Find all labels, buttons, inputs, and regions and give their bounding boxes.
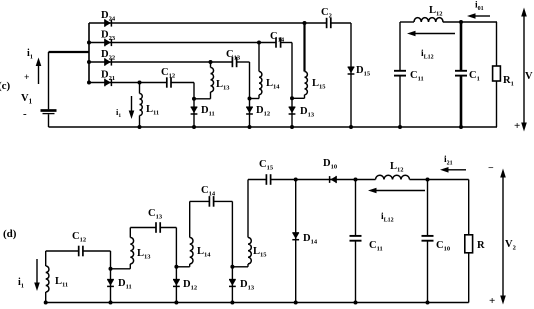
node L13 bottom joint: [109, 267, 113, 271]
svg-text:L13: L13: [216, 79, 230, 92]
svg-text:i1: i1: [27, 48, 33, 61]
inductor L15: [232, 180, 251, 267]
svg-text:C11: C11: [410, 70, 424, 83]
node L14 bottom joint: [248, 97, 252, 101]
capacitor C15: [266, 174, 270, 185]
svg-text:D12: D12: [256, 105, 270, 118]
wire battery to bus (thick feed): [49, 51, 90, 53]
svg-text:i1: i1: [116, 107, 121, 119]
inductor L11: [140, 83, 143, 128]
node bus-branch2: [87, 41, 91, 45]
node bus-branch3: [87, 60, 91, 64]
rail nodes: [138, 125, 464, 129]
diode D12: [246, 107, 253, 114]
svg-text:D22: D22: [101, 49, 115, 62]
voltage V2 arrow: [500, 169, 506, 305]
rail nodes: [44, 301, 430, 305]
svg-text:L14: L14: [197, 246, 211, 259]
diode D12: [173, 280, 180, 287]
node C11 tap: [354, 178, 358, 182]
svg-text:L12: L12: [429, 5, 443, 18]
wire C14 down to rail: [291, 43, 293, 128]
svg-text:V1: V1: [21, 93, 33, 106]
wire C12 down to rail: [110, 251, 112, 303]
svg-text:D11: D11: [118, 278, 132, 291]
svg-text:iL12: iL12: [421, 49, 434, 61]
diode D13: [289, 107, 296, 114]
wire C13 down to rail: [249, 62, 251, 127]
svg-text:C12: C12: [72, 231, 86, 244]
capacitor C14: [209, 196, 213, 207]
inductor L11: [46, 251, 49, 303]
svg-text:D14: D14: [303, 233, 318, 246]
node bus-branch4: [87, 81, 91, 85]
svg-text:C15: C15: [259, 159, 274, 172]
node L15 bottom joint: [290, 96, 294, 100]
resistor R: [465, 180, 473, 303]
svg-text:C14: C14: [270, 31, 285, 44]
capacitor C11 branch: [350, 180, 362, 303]
svg-text:V: V: [525, 71, 533, 82]
inductor L13: [111, 228, 134, 269]
node L12-C1: [459, 20, 463, 24]
svg-text:C2: C2: [321, 7, 332, 20]
wire branch3: [89, 61, 250, 63]
node L15 bottom joint: [230, 265, 234, 269]
diode D21: [105, 79, 112, 87]
capacitor C13: [232, 57, 236, 67]
svg-text:(d): (d): [3, 228, 17, 240]
wire C14 down to rail: [231, 201, 233, 302]
svg-text:L11: L11: [146, 104, 159, 117]
wire branch2: [89, 42, 292, 44]
diode D15: [348, 67, 355, 74]
diode D10 pointing left: [330, 176, 337, 183]
inductor L14: [250, 43, 262, 99]
svg-text:D21: D21: [101, 70, 115, 83]
current i21 arrow: [440, 167, 466, 173]
svg-text:(c): (c): [0, 80, 11, 92]
diode D22: [105, 58, 112, 66]
svg-text:D23: D23: [101, 30, 116, 43]
current iL12 arrow: [407, 31, 455, 37]
svg-text:C12: C12: [161, 67, 175, 80]
svg-text:i21: i21: [444, 155, 453, 167]
node L13 bottom joint: [192, 97, 196, 101]
voltage V arrow: [521, 8, 527, 132]
CIRCUIT C TOP: [0, 1, 533, 133]
stage3 top wire: [190, 200, 233, 202]
node branch2-L14: [257, 41, 261, 45]
svg-text:D11: D11: [201, 105, 215, 118]
svg-text:L15: L15: [253, 246, 267, 259]
svg-text:-: -: [23, 108, 27, 120]
svg-text:D13: D13: [300, 106, 315, 119]
svg-text:R: R: [477, 240, 485, 251]
capacitor C14: [276, 37, 281, 47]
capacitor C12: [167, 77, 171, 87]
capacitor C10 branch: [422, 180, 434, 303]
svg-text:V2: V2: [505, 239, 516, 252]
svg-text:L11: L11: [55, 276, 68, 289]
current i1 arrow: [34, 259, 40, 291]
node L12-C10: [426, 178, 430, 182]
voltage source V1: [41, 52, 57, 127]
svg-text:D15: D15: [356, 65, 371, 78]
svg-text:+: +: [489, 295, 495, 307]
node branch3-L13: [209, 60, 213, 64]
CIRCUIT D BOTTOM: [3, 155, 516, 307]
stage1 top wire: [46, 250, 111, 252]
svg-text:iL12: iL12: [381, 212, 394, 224]
current iL11 arrow: [129, 96, 135, 119]
svg-text:C13: C13: [226, 49, 241, 62]
diode D13: [229, 280, 236, 287]
diode D14 vertical: [292, 180, 299, 303]
diode D24: [105, 19, 112, 27]
bottom rail circuit c: [49, 126, 498, 128]
output top rail with inductor L12: [400, 18, 497, 22]
current i1 arrow: [36, 58, 42, 85]
top wire with C15: [248, 179, 376, 181]
wire C12 down to rail: [193, 83, 195, 128]
svg-text:+: +: [514, 120, 520, 132]
svg-text:C10: C10: [436, 240, 450, 253]
capacitor C12: [79, 246, 83, 257]
svg-text:C13: C13: [148, 208, 163, 221]
node L14 bottom joint: [174, 265, 178, 269]
node branch1-L15: [303, 21, 307, 25]
inductor L13: [194, 62, 214, 99]
wire branch4: [89, 82, 194, 84]
resistor R1: [493, 22, 501, 127]
inductor L14: [176, 201, 193, 266]
capacitor C1 branch: [455, 22, 467, 127]
svg-text:i1: i1: [18, 277, 24, 290]
wire C2 down to rail: [350, 23, 352, 127]
diode D11: [191, 107, 198, 114]
svg-text:L12: L12: [390, 161, 404, 174]
wire C13 down to rail: [175, 228, 177, 303]
stage2 top wire: [130, 227, 176, 229]
bottom rail circuit d: [46, 302, 469, 304]
svg-text:C14: C14: [201, 185, 216, 198]
svg-text:C1: C1: [469, 70, 480, 83]
svg-text:L14: L14: [266, 78, 280, 91]
capacitor C2: [327, 18, 331, 28]
wire branch1: [89, 22, 351, 24]
svg-text:+: +: [24, 73, 29, 83]
svg-text:D12: D12: [183, 279, 197, 292]
svg-text:R1: R1: [503, 75, 514, 88]
svg-text:C11: C11: [369, 240, 383, 253]
current iL12 arrow: [368, 188, 425, 194]
wire L12 to right corner: [428, 179, 469, 181]
inductor L15: [292, 23, 307, 98]
capacitor C11 branch: [394, 22, 406, 127]
diode D11: [107, 280, 114, 287]
node D14 tap: [294, 178, 298, 182]
svg-text:−: −: [488, 163, 494, 174]
svg-text:L15: L15: [312, 78, 326, 91]
svg-text:D24: D24: [101, 10, 116, 23]
wire left bus: [88, 23, 90, 83]
svg-text:D10: D10: [323, 158, 337, 171]
svg-text:i01: i01: [475, 1, 484, 13]
diode D23: [105, 39, 112, 47]
inductor L12: [376, 175, 428, 179]
svg-text:D13: D13: [240, 279, 255, 292]
current io1 arrow: [467, 13, 490, 19]
svg-text:L13: L13: [137, 248, 151, 261]
node branch4-L11: [138, 81, 142, 85]
capacitor C13: [156, 222, 160, 233]
